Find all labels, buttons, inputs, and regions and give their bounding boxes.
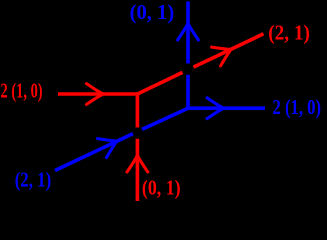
- arrow on red vertical: [127, 156, 148, 173]
- wire red horizontal 2(1,0) into red vertex: [58, 94, 137, 128]
- wire red diagonal (2,1) right segment: [194, 34, 264, 67]
- wire red diagonal (2,1) left segment: [137, 72, 182, 94]
- wire blue vertical lower segment joining blue vertex and horizontal 2(1,0): [188, 75, 265, 108]
- wire blue vertical (0,1) upper segment: [186, 2, 190, 64]
- svg-text:2 (1, 0): 2 (1, 0): [273, 95, 322, 119]
- svg-text:(2, 1): (2, 1): [15, 167, 52, 191]
- wire blue diagonal (2,1) right segment: [142, 108, 188, 129]
- wire red vertical (0,1) lower segment: [136, 139, 140, 201]
- svg-text:(0, 1): (0, 1): [142, 175, 181, 199]
- arrow on blue horizontal: [207, 98, 224, 119]
- arrow on red horizontal: [87, 84, 104, 105]
- svg-text:2 (1, 0): 2 (1, 0): [1, 78, 43, 102]
- arrow on blue vertical: [178, 24, 199, 41]
- svg-text:(2, 1): (2, 1): [268, 21, 310, 45]
- wire blue diagonal (2,1) left segment: [55, 134, 133, 171]
- arrow on red diagonal: [212, 40, 236, 66]
- svg-text:(0, 1): (0, 1): [130, 0, 175, 24]
- arrow on blue diagonal: [98, 132, 122, 158]
